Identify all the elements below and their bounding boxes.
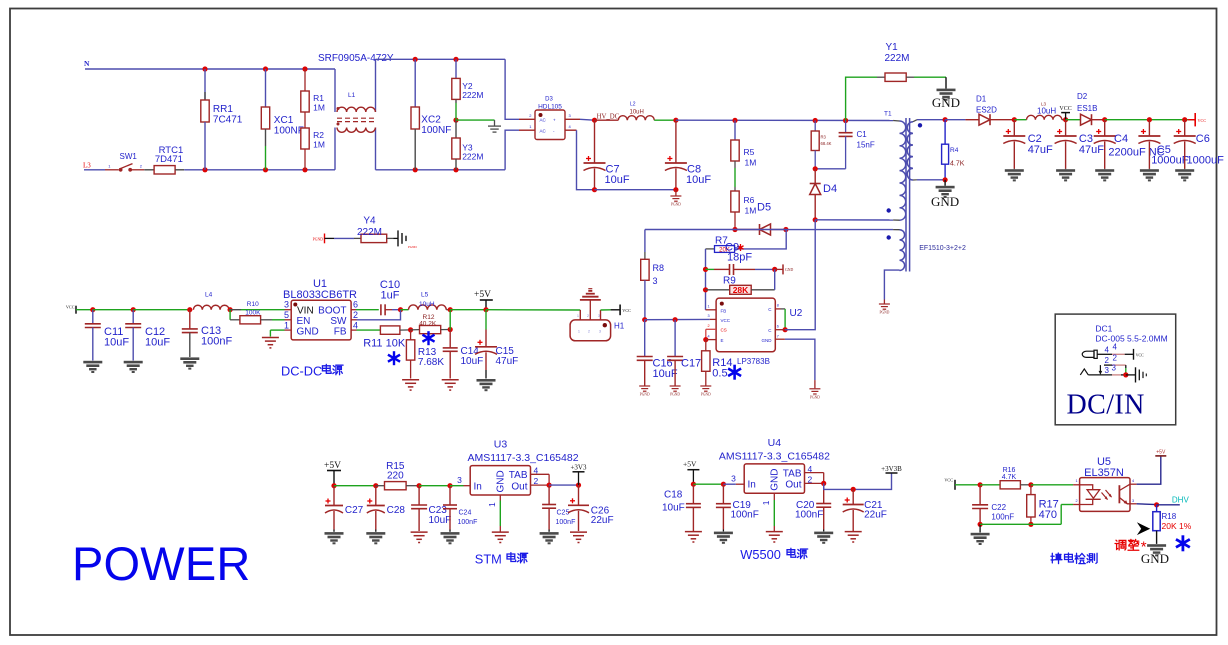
wire bottom loop to LED cathode: [980, 505, 1080, 525]
svg-text:PGND: PGND: [880, 311, 890, 315]
svg-text:1: 1: [487, 502, 497, 507]
capacitor C20 100nF: [795, 483, 833, 543]
svg-text:68.4K: 68.4K: [821, 141, 832, 146]
power ground PGND under C17: [670, 386, 681, 397]
wire U3 Out: [531, 484, 550, 486]
svg-text:10uH: 10uH: [630, 110, 644, 116]
svg-text:1: 1: [578, 330, 580, 334]
svg-text:100nF: 100nF: [556, 519, 576, 526]
resistor R11 10K: [363, 326, 410, 350]
svg-text:222M: 222M: [462, 90, 483, 100]
wire U4 TAB to Out: [805, 473, 824, 484]
net flag GND at C9: [775, 264, 794, 274]
svg-text:EF1510-3+2+2: EF1510-3+2+2: [919, 245, 966, 252]
wire W5500 rail: [693, 483, 723, 485]
svg-text:AMS1117-3.3_C165482: AMS1117-3.3_C165482: [467, 452, 578, 464]
svg-text:FB: FB: [721, 308, 727, 313]
junction C8 bottom: [673, 187, 678, 192]
capacitor Y4 222M: [354, 216, 394, 243]
svg-text:EL357N: EL357N: [1084, 467, 1124, 479]
resistor R6 1M: [731, 161, 757, 230]
capacitor C12 10uF: [124, 310, 171, 373]
svg-text:U4: U4: [768, 437, 782, 449]
junction R3 top: [813, 118, 818, 123]
junction C27 top: [331, 483, 336, 488]
svg-text:100nF: 100nF: [458, 519, 478, 526]
svg-text:GND: GND: [932, 95, 960, 110]
svg-text:L3: L3: [83, 162, 91, 170]
svg-text:100NF: 100NF: [421, 125, 451, 136]
junction C19 top: [721, 482, 726, 487]
title POWER: [72, 537, 251, 590]
svg-text:4: 4: [353, 320, 358, 330]
resistor R17 470: [1027, 485, 1059, 525]
chassis ground in DC/IN box: [1126, 367, 1147, 382]
DC jack pin 3 (sleeve): [1080, 364, 1126, 376]
label DC/IN: [1067, 389, 1145, 420]
svg-text:222M: 222M: [357, 227, 382, 238]
power flag +5V (DC-DC): [474, 290, 493, 310]
capacitor Y1 222M: [846, 42, 946, 121]
svg-text:TAB: TAB: [509, 470, 528, 481]
wire U2 pin4 E stub: [706, 339, 716, 341]
svg-text:PGND: PGND: [670, 393, 680, 397]
junction R18 top: [1154, 502, 1159, 507]
svg-text:4: 4: [1132, 479, 1134, 483]
junction C18 top: [691, 482, 696, 487]
inductor L2 10uH: [595, 102, 676, 121]
wire U4 out to +3V3B: [824, 473, 892, 489]
resistor R3 68.4K: [811, 121, 831, 169]
wire bridge - output: [565, 130, 595, 190]
svg-text:Out: Out: [785, 480, 801, 491]
DC jack pin 4 (center pin): [1082, 343, 1144, 360]
svg-text:10uH: 10uH: [1037, 107, 1056, 116]
svg-text:CS: CS: [721, 328, 727, 333]
svg-text:R4: R4: [950, 147, 959, 154]
svg-text:10uF: 10uF: [429, 515, 452, 526]
asterisk at R12: [422, 331, 434, 345]
svg-text:2: 2: [708, 324, 710, 328]
svg-text:3: 3: [284, 300, 289, 310]
net label L3 (line): [83, 162, 91, 170]
svg-text:E: E: [721, 338, 724, 343]
junction C9 right: [772, 267, 777, 272]
svg-text:D1: D1: [976, 95, 987, 104]
junction C24 top: [447, 483, 452, 488]
wire U5 collector to +5V: [1130, 456, 1161, 484]
resistor R14 0.5: [702, 340, 733, 386]
svg-text:3: 3: [1105, 366, 1110, 375]
svg-text:PGND: PGND: [408, 245, 417, 249]
wire +5V rail: [450, 309, 486, 311]
svg-text:1: 1: [284, 320, 289, 330]
svg-text:SW1: SW1: [120, 152, 138, 161]
title STM power: [475, 552, 528, 567]
resistor R4 4.7K: [942, 120, 965, 180]
junction C9 left: [703, 267, 708, 272]
junction bottom RR1: [202, 167, 207, 172]
diode D1 ES2D: [945, 95, 1014, 126]
capacitor C23 10uF: [411, 486, 452, 543]
svg-text:VCC: VCC: [622, 308, 631, 313]
svg-text:VCC: VCC: [1198, 118, 1207, 123]
capacitor Y2 222M: [452, 59, 484, 100]
op-amp U2 LP3783B body: [708, 298, 803, 366]
junction top Y2: [453, 57, 458, 62]
svg-text:D2: D2: [1077, 92, 1088, 101]
svg-text:1000uF: 1000uF: [1187, 155, 1225, 167]
junction C2 top: [1012, 117, 1017, 122]
svg-text:22uF: 22uF: [864, 509, 887, 520]
transformer T1 core: [906, 118, 910, 272]
svg-text:PGND: PGND: [671, 203, 681, 207]
bridge rectifier D3 HDL105: [529, 97, 571, 140]
svg-text:4.7K: 4.7K: [950, 161, 965, 168]
svg-text:C25: C25: [557, 510, 570, 517]
net flag PGND at Y4: [313, 234, 354, 244]
junction R5 top: [732, 118, 737, 123]
title DC-DC: [281, 363, 343, 378]
svg-text:DHV: DHV: [1172, 495, 1190, 504]
svg-text:3: 3: [598, 314, 600, 318]
svg-text:R8: R8: [653, 263, 665, 273]
svg-text:2: 2: [588, 330, 590, 334]
capacitor C13 100nF: [180, 310, 232, 370]
svg-text:20K 1%: 20K 1%: [1162, 521, 1192, 531]
junction C26 top: [576, 483, 581, 488]
wire L4 to VIN: [229, 309, 291, 311]
junction C3 top / VCC flag: [1063, 117, 1068, 122]
svg-text:TAB: TAB: [783, 468, 802, 479]
svg-text:1M: 1M: [313, 103, 325, 113]
wire AC2 into bridge: [505, 130, 535, 170]
svg-text:N: N: [84, 59, 90, 68]
capacitor XC2 100NF: [411, 59, 451, 170]
junction C21 top: [851, 487, 856, 492]
svg-text:7: 7: [777, 334, 779, 338]
svg-text:VCC: VCC: [66, 305, 75, 310]
wire to U3 In: [450, 485, 470, 487]
transformer T1 aux winding: [884, 230, 904, 300]
wire U1 FB to R11: [351, 329, 380, 331]
junction top RR1: [202, 66, 207, 71]
svg-text:LP3783B: LP3783B: [737, 357, 770, 366]
capacitor C4 2200uF NC: [1094, 120, 1165, 182]
svg-text:C22: C22: [991, 503, 1006, 512]
wire to aux winding: [786, 229, 893, 231]
junction top R1: [302, 66, 307, 71]
capacitor C15 47uF: [475, 310, 518, 392]
red label tiaozheng: [1115, 539, 1147, 556]
junction R17 bottom: [1028, 522, 1033, 527]
svg-text:EN: EN: [297, 316, 311, 327]
svg-text:C4: C4: [1114, 133, 1128, 145]
svg-text:10uH: 10uH: [419, 301, 435, 308]
power ground under U1: [262, 338, 279, 348]
junction U4 out: [821, 481, 826, 486]
svg-text:8: 8: [777, 304, 779, 308]
junction C28 top: [373, 483, 378, 488]
svg-text:7.68K: 7.68K: [418, 357, 444, 368]
wire +5V to H1: [486, 309, 580, 311]
power ground under R13: [402, 380, 419, 390]
svg-text:R10: R10: [247, 301, 259, 308]
svg-text:FB: FB: [334, 326, 347, 337]
svg-text:1M: 1M: [313, 140, 325, 150]
wire Y-cap midpoint to chassis ground: [456, 119, 495, 121]
power ground PGND under C8: [670, 190, 681, 207]
svg-text:In: In: [474, 481, 482, 492]
svg-text:1: 1: [1076, 479, 1078, 483]
wire to C24: [419, 485, 450, 487]
junction U2 pin4 E: [703, 337, 708, 342]
svg-text:DC-DC: DC-DC: [281, 363, 322, 378]
power ground PGND under U2 pin7: [809, 389, 820, 400]
svg-text:D5: D5: [757, 202, 771, 214]
junction HV_DC / C7 top: [592, 118, 597, 123]
svg-text:PGND: PGND: [640, 393, 650, 397]
title power-loss detect: [1051, 553, 1097, 564]
svg-text:VCC: VCC: [1136, 353, 1144, 357]
power ground PGND under R14: [700, 386, 711, 397]
junction C7 bottom: [592, 187, 597, 192]
capacitor C14 10uF: [443, 330, 484, 379]
svg-text:1: 1: [577, 314, 579, 318]
asterisk (detect): [1176, 535, 1190, 551]
resistor R7 20K (blue box): [706, 236, 744, 254]
svg-text:PGND: PGND: [701, 393, 711, 397]
label SRF0905A-472Y: [318, 53, 394, 64]
wire N top rail: [85, 68, 335, 70]
svg-text:DC-005 5.5-2.0MM: DC-005 5.5-2.0MM: [1095, 334, 1167, 344]
junction U2 pin6: [783, 327, 788, 332]
junction top XC2: [413, 57, 418, 62]
resistor R9 28K (red box): [706, 276, 775, 296]
resistor RR1 7C471: [201, 69, 243, 170]
wire D5 node down to R8: [735, 230, 787, 249]
capacitor XC1 100NF: [261, 69, 304, 170]
svg-text:HV_DC: HV_DC: [597, 113, 620, 120]
junction C22 bottom: [978, 522, 983, 527]
wire top rail after choke: [376, 58, 506, 60]
junction D5 anode node: [732, 227, 737, 232]
junction D5 cathode / aux winding: [783, 227, 788, 232]
svg-text:R16: R16: [1003, 467, 1016, 474]
inductor L5 10uH: [401, 292, 451, 310]
svg-text:+5V: +5V: [683, 460, 697, 469]
svg-text:POWER: POWER: [72, 537, 251, 590]
capacitor C22 100nF: [972, 485, 1014, 525]
power ground under C14: [442, 380, 459, 390]
svg-text:C6: C6: [1196, 133, 1210, 145]
svg-text:6: 6: [777, 325, 779, 329]
wire PGND rail: [595, 189, 676, 191]
svg-text:2: 2: [1113, 353, 1118, 362]
phototransistor inside U5: [1119, 484, 1130, 504]
svg-text:L4: L4: [205, 292, 213, 299]
svg-text:Out: Out: [511, 481, 527, 492]
svg-text:2: 2: [1076, 499, 1078, 503]
junction C12 top: [131, 307, 136, 312]
capacitor C27: [325, 486, 364, 545]
chassis ground at Y4: [394, 230, 418, 249]
diode D5: [735, 202, 786, 236]
junction after C10: [398, 307, 403, 312]
net flag VCC at H1: [601, 305, 632, 316]
resistor R8 3: [641, 230, 786, 320]
capacitor C1 15nF: [815, 121, 875, 169]
svg-text:R18: R18: [1162, 512, 1177, 521]
svg-text:+: +: [553, 118, 556, 123]
junction bottom XC1: [263, 167, 268, 172]
resistor R16 4.7K: [980, 467, 1031, 489]
capacitor Y3 222M: [452, 99, 484, 169]
svg-text:100nF: 100nF: [731, 509, 759, 520]
wire R16 to LED anode: [1031, 484, 1080, 486]
junction C23 top: [417, 483, 422, 488]
wire R9 right up to C9 node: [774, 269, 776, 289]
wire pin6 to switch node: [785, 220, 815, 330]
wire AC1 into bridge: [505, 59, 535, 119]
net flag VCC at rail end: [1188, 113, 1206, 126]
junction after L5: [448, 307, 453, 312]
svg-text:18pF: 18pF: [727, 252, 752, 264]
inductor L4: [193, 292, 229, 310]
LED inside U5: [1080, 485, 1112, 505]
svg-text:+5V: +5V: [474, 290, 491, 300]
diode D2 ES1B: [1066, 92, 1105, 125]
svg-text:100K: 100K: [245, 309, 261, 316]
capacitor C11 10uF: [83, 310, 129, 373]
capacitor C28: [366, 486, 405, 545]
svg-text:GND: GND: [496, 470, 507, 492]
svg-text:R11 10K: R11 10K: [363, 338, 406, 350]
junction switch node: [813, 217, 818, 222]
svg-text:10uF: 10uF: [653, 368, 678, 380]
wire U1 GND pin to ground: [270, 330, 291, 336]
svg-text:GND: GND: [762, 338, 773, 343]
svg-text:1M: 1M: [745, 158, 757, 168]
net label DHV: [1172, 495, 1190, 504]
wire U3 TAB to Out: [531, 474, 550, 485]
capacitor C6 1000uF: [1174, 120, 1224, 182]
wire +5V STM rail: [334, 485, 376, 487]
ground GND at Y1: [932, 77, 960, 110]
junction Y2-Y3 midpoint: [453, 118, 458, 123]
svg-text:GND: GND: [297, 326, 319, 337]
wire bottom rail to choke: [184, 169, 335, 171]
svg-text:47uF: 47uF: [496, 356, 519, 367]
switch SW1: [105, 152, 144, 172]
junction after L2: [673, 118, 678, 123]
svg-text:2: 2: [1105, 356, 1110, 365]
capacitor C17: [667, 320, 701, 386]
ground GND under R4: [931, 180, 959, 209]
junction C11 top: [90, 307, 95, 312]
resistor R13 7.68K: [406, 330, 444, 379]
title W5500 power: [740, 547, 807, 562]
resistor R12 40.2K: [411, 314, 451, 334]
power flag +3V3B: [881, 465, 902, 473]
label EF1510-3+2+2: [919, 245, 966, 252]
power flag +5V (detect): [1155, 450, 1166, 456]
svg-text:28K: 28K: [733, 285, 749, 295]
svg-text:VCC: VCC: [721, 318, 731, 323]
regulator U4 AMS1117-3.3 body: [719, 437, 830, 506]
svg-text:C24: C24: [459, 510, 472, 517]
junction C5 top: [1147, 117, 1152, 122]
svg-text:HDL105: HDL105: [538, 104, 562, 111]
varistor RTC1 7D471: [144, 145, 184, 174]
wire DC-DC rail 1: [93, 309, 133, 311]
svg-text:10uF: 10uF: [461, 356, 484, 367]
resistor R2 1M: [301, 112, 325, 170]
junction R11/R13: [408, 327, 413, 332]
wire U3 GND pin to ground: [492, 495, 509, 543]
junction secondary top / R4: [943, 117, 948, 122]
svg-text:220: 220: [387, 471, 404, 482]
power ground PGND under C16: [639, 386, 650, 397]
svg-text:1uF: 1uF: [381, 290, 400, 302]
svg-text:Y1: Y1: [886, 42, 899, 53]
svg-text:100nF: 100nF: [201, 336, 232, 348]
common-mode choke L1: [335, 59, 376, 170]
svg-text:3: 3: [457, 475, 462, 485]
junction C13 top: [187, 307, 192, 312]
resistor R1 1M: [301, 69, 325, 113]
capacitor C7 10uF: [584, 120, 630, 190]
svg-text:U2: U2: [790, 308, 803, 319]
svg-text:4: 4: [708, 334, 710, 338]
svg-text:1000uF: 1000uF: [1151, 155, 1189, 167]
net flag VCC (detect): [944, 478, 980, 490]
svg-text:47uF: 47uF: [1079, 144, 1104, 156]
resistor R5 1M: [731, 120, 757, 167]
wire U5 emitter to DHV: [1130, 503, 1157, 506]
junction bottom Y3: [453, 167, 458, 172]
power flag +3V3: [570, 463, 587, 485]
wire FB chain vertical: [705, 249, 707, 310]
svg-text:222M: 222M: [885, 53, 910, 64]
wire L bottom rail left: [84, 169, 105, 171]
svg-text:C17: C17: [681, 358, 701, 370]
svg-text:5: 5: [284, 310, 289, 320]
junction R16/R17: [1028, 482, 1033, 487]
svg-text:3: 3: [708, 314, 710, 318]
svg-text:4: 4: [1113, 343, 1118, 352]
svg-text:3: 3: [1132, 499, 1134, 503]
svg-text:1: 1: [708, 305, 710, 309]
ground GND under C22: [971, 524, 990, 545]
connector DC1 labels: [1095, 323, 1167, 343]
junction DC jack ground: [1123, 372, 1128, 377]
chassis ground near XC2: [488, 120, 501, 132]
svg-text:R2: R2: [313, 130, 324, 140]
junction snubber bottom: [813, 166, 818, 171]
svg-text:10uF: 10uF: [104, 337, 129, 349]
svg-text:PGND: PGND: [313, 238, 324, 242]
svg-text:R3: R3: [821, 135, 827, 140]
svg-text:+5V: +5V: [324, 461, 341, 471]
regulator U1 BL8033CB6TR body: [283, 278, 358, 340]
svg-text:SW: SW: [330, 316, 347, 327]
asterisk at R13: [388, 351, 400, 365]
svg-text:0.5: 0.5: [712, 368, 727, 380]
net flag VCC at DC-DC input: [66, 305, 93, 314]
svg-text:3: 3: [1112, 364, 1117, 373]
junction C1 top: [843, 118, 848, 123]
